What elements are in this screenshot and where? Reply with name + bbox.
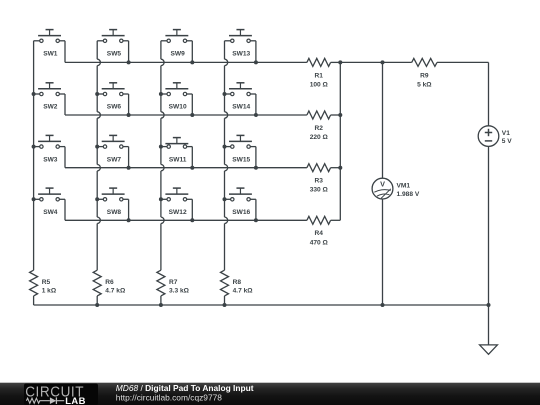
svg-text:SW9: SW9 bbox=[171, 51, 186, 58]
svg-text:SW3: SW3 bbox=[43, 156, 58, 163]
svg-text:R2: R2 bbox=[315, 125, 324, 132]
svg-text:SW7: SW7 bbox=[107, 156, 122, 163]
svg-text:330 Ω: 330 Ω bbox=[310, 187, 329, 194]
svg-text:LAB: LAB bbox=[65, 395, 85, 405]
svg-text:100 Ω: 100 Ω bbox=[310, 81, 329, 88]
svg-text:1 kΩ: 1 kΩ bbox=[42, 287, 57, 294]
svg-text:VM1: VM1 bbox=[397, 183, 411, 190]
svg-text:SW4: SW4 bbox=[43, 209, 58, 216]
svg-text:R4: R4 bbox=[315, 230, 324, 237]
svg-text:http://circuitlab.com/cqz9778: http://circuitlab.com/cqz9778 bbox=[116, 393, 222, 403]
svg-text:R7: R7 bbox=[169, 279, 178, 286]
svg-text:SW11: SW11 bbox=[169, 156, 187, 163]
svg-text:3.3 kΩ: 3.3 kΩ bbox=[169, 287, 190, 294]
svg-text:220 Ω: 220 Ω bbox=[310, 134, 329, 141]
svg-text:SW14: SW14 bbox=[232, 104, 250, 111]
svg-text:R3: R3 bbox=[315, 178, 324, 185]
svg-text:MD68 / Digital Pad To Analog I: MD68 / Digital Pad To Analog Input bbox=[116, 383, 254, 393]
svg-text:SW1: SW1 bbox=[43, 51, 58, 58]
svg-text:R6: R6 bbox=[105, 279, 114, 286]
svg-text:V1: V1 bbox=[502, 130, 510, 137]
svg-text:470 Ω: 470 Ω bbox=[310, 239, 329, 246]
svg-text:R9: R9 bbox=[420, 72, 429, 79]
svg-text:SW8: SW8 bbox=[107, 209, 122, 216]
svg-text:4.7 kΩ: 4.7 kΩ bbox=[105, 287, 126, 294]
svg-text:5 V: 5 V bbox=[502, 138, 512, 145]
svg-text:SW2: SW2 bbox=[43, 104, 58, 111]
svg-text:SW10: SW10 bbox=[169, 104, 187, 111]
svg-text:SW16: SW16 bbox=[232, 209, 250, 216]
svg-text:5 kΩ: 5 kΩ bbox=[417, 81, 432, 88]
svg-text:SW6: SW6 bbox=[107, 104, 122, 111]
svg-text:SW15: SW15 bbox=[232, 156, 250, 163]
svg-text:R5: R5 bbox=[42, 279, 51, 286]
svg-text:R1: R1 bbox=[315, 72, 324, 79]
svg-text:R8: R8 bbox=[233, 279, 242, 286]
svg-text:V: V bbox=[380, 180, 385, 189]
svg-text:4.7 kΩ: 4.7 kΩ bbox=[233, 287, 254, 294]
svg-text:SW12: SW12 bbox=[169, 209, 187, 216]
svg-text:SW5: SW5 bbox=[107, 51, 122, 58]
svg-text:SW13: SW13 bbox=[232, 51, 250, 58]
svg-text:1.988 V: 1.988 V bbox=[397, 191, 420, 198]
